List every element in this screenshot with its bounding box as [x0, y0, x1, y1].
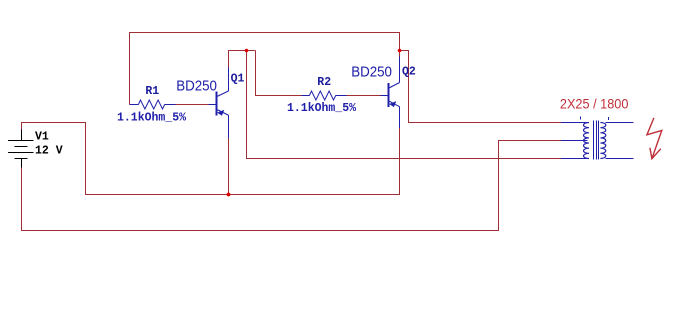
svg-text:V1: V1 — [35, 131, 49, 144]
svg-text:Q1: Q1 — [231, 73, 245, 86]
svg-text:BD250: BD250 — [176, 78, 217, 95]
svg-text:1.1kOhm_5%: 1.1kOhm_5% — [287, 102, 356, 115]
svg-text:2X25 / 1800: 2X25 / 1800 — [560, 96, 629, 112]
svg-text:R1: R1 — [145, 85, 159, 98]
svg-text:1.1kOhm_5%: 1.1kOhm_5% — [117, 112, 186, 125]
svg-text:BD250: BD250 — [351, 64, 392, 81]
svg-text:12 V: 12 V — [35, 145, 63, 158]
svg-text:R2: R2 — [317, 76, 331, 89]
svg-text:Q2: Q2 — [402, 66, 416, 79]
